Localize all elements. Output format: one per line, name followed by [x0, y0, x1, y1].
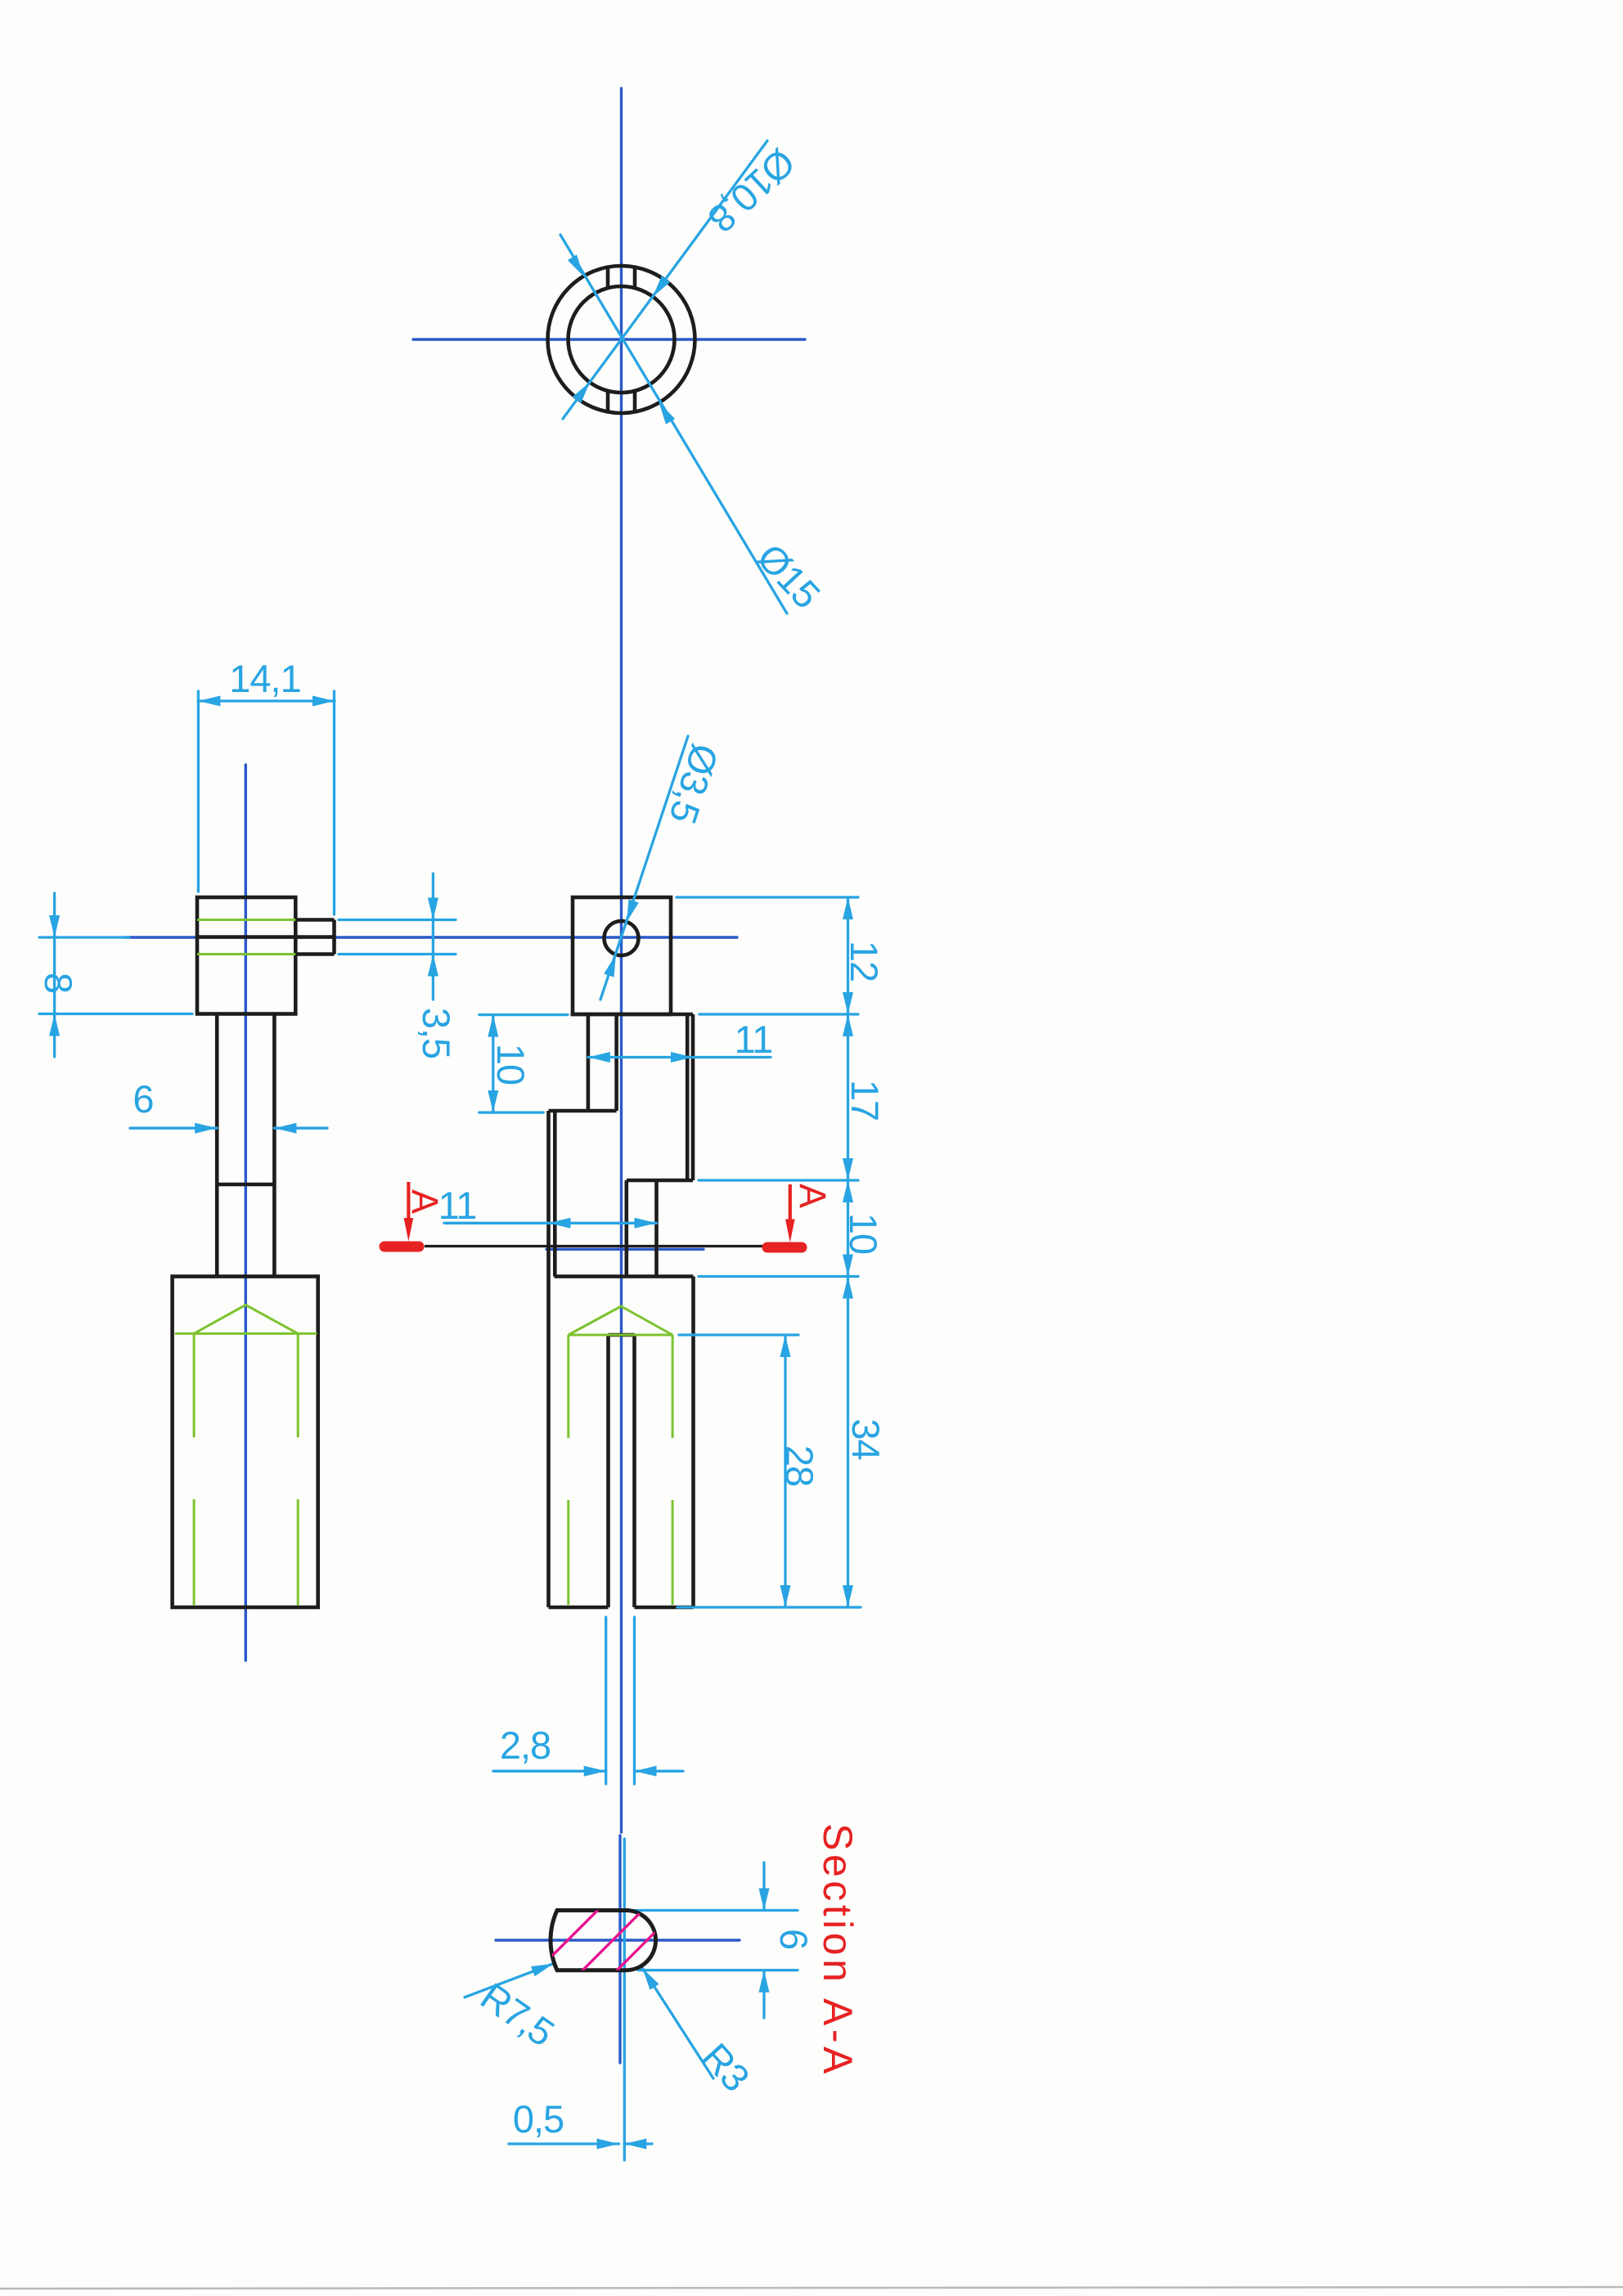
front view upper neck tangent edge — [686, 1014, 690, 1180]
front view thread right dash upper — [672, 1335, 674, 1438]
front view bottom edge right — [635, 1606, 694, 1610]
ext chain y1240 — [699, 1013, 858, 1015]
arrow chain 1560 down — [843, 1255, 853, 1277]
dim 8 line — [53, 893, 56, 1057]
front view thread bottom line — [569, 1334, 673, 1337]
section plane centerline — [546, 1248, 704, 1251]
left view thread right dash lower — [297, 1499, 299, 1606]
dim 11 lower line — [444, 1222, 657, 1224]
arrow 10 left bottom — [488, 1090, 498, 1112]
front view cross hole — [605, 921, 639, 955]
arrow chain 1443 down — [843, 1158, 853, 1180]
left view thread left dash lower — [193, 1499, 196, 1606]
ext 10 left bottom — [479, 1111, 543, 1113]
leader R3 — [643, 1969, 714, 2079]
arrow 3.5 top — [428, 898, 438, 920]
ext chain y1560 — [699, 1275, 858, 1278]
arrow chain 1240 up — [843, 1014, 853, 1036]
svg-text:0,5: 0,5 — [513, 2097, 564, 2141]
svg-text:34: 34 — [844, 1418, 888, 1459]
leader R7.5 — [465, 1964, 554, 1997]
svg-text:12: 12 — [843, 941, 886, 982]
front view upper neck right edge — [691, 1014, 695, 1180]
front view thread left dash lower — [567, 1500, 569, 1605]
ext 2.8 left — [605, 1617, 607, 1784]
arrow Ø10.8 upper — [649, 276, 670, 299]
svg-text:11: 11 — [735, 1018, 773, 1061]
arrow 8 bottom — [49, 1014, 60, 1036]
dim 10 left line — [492, 1015, 494, 1113]
arrow 28 top — [780, 1335, 791, 1357]
svg-text:6: 6 — [133, 1077, 153, 1121]
front view lower neck flat edge — [624, 1180, 628, 1277]
ext 8 bottom — [39, 1013, 192, 1015]
left view stub right edge — [332, 920, 336, 955]
ext 8 top — [39, 936, 129, 938]
arrow chain 1965 — [843, 1585, 853, 1607]
section view vertical centerline — [618, 1835, 621, 2063]
svg-text:Section A-A: Section A-A — [815, 1823, 861, 2078]
top view slot edge top-left — [606, 267, 610, 289]
section hatch — [512, 1881, 706, 1996]
arrow 8 top — [49, 915, 60, 937]
front view bottom block top edge — [555, 1274, 694, 1278]
left view vertical centerline — [245, 765, 247, 1660]
dim 3.5 ext bottom — [339, 953, 456, 955]
arrow Ø15 upper — [568, 254, 588, 279]
front view slot left edge — [606, 1335, 610, 1607]
dim 0.5 line right — [624, 2142, 652, 2145]
svg-text:10: 10 — [842, 1213, 885, 1254]
svg-text:8: 8 — [37, 973, 80, 993]
arrow Ø3.5 lower — [604, 953, 621, 977]
arrow R3 — [638, 1966, 659, 1990]
svg-text:A: A — [792, 1184, 834, 1208]
ext chain y1965 — [677, 1606, 861, 1608]
arrow chain 1097 — [843, 897, 853, 919]
arrow 2.8 left — [584, 1766, 606, 1777]
dim 28 line — [784, 1335, 786, 1607]
section mark right bar — [767, 1242, 802, 1253]
arrow 3.5 bottom — [428, 955, 438, 977]
hole horizontal centerline — [124, 936, 737, 938]
dim 2.8 line right — [635, 1770, 684, 1773]
left view thread bottom line — [175, 1332, 317, 1335]
arrow 6 left — [195, 1123, 217, 1134]
section mark left stem — [407, 1182, 410, 1221]
svg-text:A: A — [404, 1189, 446, 1214]
front view bottom edge left — [549, 1606, 609, 1610]
dim 3.5 line — [432, 874, 434, 1000]
front view top block — [573, 897, 671, 1014]
front view thread left dash upper — [567, 1335, 569, 1438]
left view shaft right edge — [272, 1014, 276, 1277]
scan edge artifact bottom — [0, 2287, 1623, 2289]
arrow 0.5 left — [597, 2139, 619, 2150]
front view slot top edge — [609, 1333, 635, 1337]
dim 11 upper line — [588, 1056, 771, 1058]
main vertical centerline — [620, 88, 623, 1832]
arrow 28 bottom — [780, 1585, 791, 1607]
arrow 14.1 left — [198, 696, 220, 707]
right chain dim line — [847, 897, 849, 1607]
dim Ø10.8 line — [563, 141, 767, 419]
svg-text:6: 6 — [772, 1929, 816, 1949]
dim 14.1 line — [198, 699, 335, 702]
left view hole upper line — [197, 919, 295, 921]
dim 2.8 line left — [493, 1770, 606, 1773]
svg-text:17: 17 — [843, 1080, 887, 1121]
section line A-A — [425, 1245, 766, 1247]
dim 6 section line lower — [762, 1970, 765, 2018]
left view thread right dash upper — [297, 1333, 299, 1437]
front view upper neck left edge — [587, 1014, 591, 1111]
left view shaft step line — [217, 1183, 274, 1187]
section outline — [551, 1911, 656, 1970]
arrow R7.5 — [531, 1959, 555, 1977]
left view stub top edge — [295, 918, 334, 922]
leader Ø3.5 — [600, 736, 688, 1000]
top view slot edge bottom-left — [606, 390, 610, 411]
top view horizontal centerline — [413, 338, 805, 340]
section mark right stem — [789, 1184, 792, 1222]
dim Ø15 line — [560, 235, 787, 613]
ext chain y1097 — [677, 896, 858, 898]
section mark left bar — [384, 1242, 419, 1252]
ext 14.1 left — [197, 691, 200, 892]
arrow 11 upper right — [671, 1052, 693, 1063]
left view top block — [197, 897, 295, 1014]
dim 6 section ext bottom — [638, 1969, 798, 1971]
ext 10 left top — [479, 1013, 568, 1016]
top view slot edge bottom-right — [633, 390, 637, 411]
svg-text:3,5: 3,5 — [415, 1008, 458, 1058]
front view drill point — [569, 1306, 672, 1335]
section mark right arrow — [785, 1220, 795, 1243]
svg-text:10: 10 — [489, 1044, 533, 1085]
front view right cylinder edge — [691, 1277, 695, 1608]
arrow 0.5 right — [624, 2139, 646, 2150]
left view hole lower line — [197, 953, 295, 955]
front view slot right edge — [632, 1335, 636, 1607]
front view upper neck flat edge — [614, 1014, 618, 1111]
left view drill point — [194, 1305, 298, 1333]
dim 6 line left — [130, 1127, 217, 1130]
arrow Ø3.5 upper — [622, 899, 639, 923]
left view thread left dash upper — [193, 1333, 196, 1437]
section flat ext line — [623, 1839, 626, 2160]
arrow chain 1443 up — [843, 1180, 853, 1202]
front view neck top edge — [571, 1013, 694, 1017]
arrow 2.8 right — [635, 1766, 657, 1777]
svg-text:2,8: 2,8 — [500, 1723, 551, 1767]
front view lower neck right edge — [654, 1180, 659, 1277]
left view stub bottom edge — [295, 952, 334, 956]
front view lower neck top edge — [549, 1109, 617, 1113]
section view horizontal centerline — [496, 1939, 740, 1941]
dim 6 line right — [274, 1127, 327, 1130]
front view thread right dash lower — [672, 1500, 674, 1605]
arrow 6 section bottom — [759, 1970, 770, 1993]
arrow 6 right — [274, 1123, 296, 1134]
dim 3.5 ext top — [339, 919, 456, 921]
top view inner circle — [569, 286, 675, 393]
arrow Ø10.8 lower — [573, 379, 594, 402]
arrow 6 section top — [759, 1889, 770, 1911]
dim 6 section line — [762, 1862, 765, 1911]
top view outer circle — [548, 266, 695, 413]
ext 2.8 right — [633, 1617, 636, 1784]
arrow 11 lower left — [549, 1218, 571, 1229]
ext 28 top — [679, 1333, 798, 1336]
arrow chain 1240 down — [843, 992, 853, 1014]
arrow 11 upper left — [588, 1052, 610, 1063]
svg-text:14,1: 14,1 — [229, 657, 300, 700]
left view bottom block — [173, 1277, 318, 1608]
ext 14.1 right — [333, 691, 335, 914]
front view left cylinder edge — [546, 1111, 551, 1607]
arrow chain 1560 up — [843, 1277, 853, 1299]
left view hole axis edge — [197, 935, 335, 938]
svg-text:28: 28 — [778, 1445, 821, 1486]
ext chain y1443 — [699, 1179, 858, 1181]
front view lower neck tangent edge — [553, 1111, 557, 1277]
dim 6 section ext top — [622, 1909, 798, 1912]
dim 0.5 line left — [509, 2142, 619, 2145]
arrow Ø15 lower — [654, 400, 675, 425]
arrow 11 lower right — [635, 1218, 657, 1229]
left view shaft left edge — [215, 1014, 219, 1277]
arrow 14.1 right — [312, 696, 335, 707]
top view slot edge top-right — [633, 267, 637, 289]
section mark left arrow — [404, 1218, 414, 1242]
arrow 10 left top — [488, 1015, 498, 1037]
front view upper neck bottom edge — [627, 1179, 693, 1183]
